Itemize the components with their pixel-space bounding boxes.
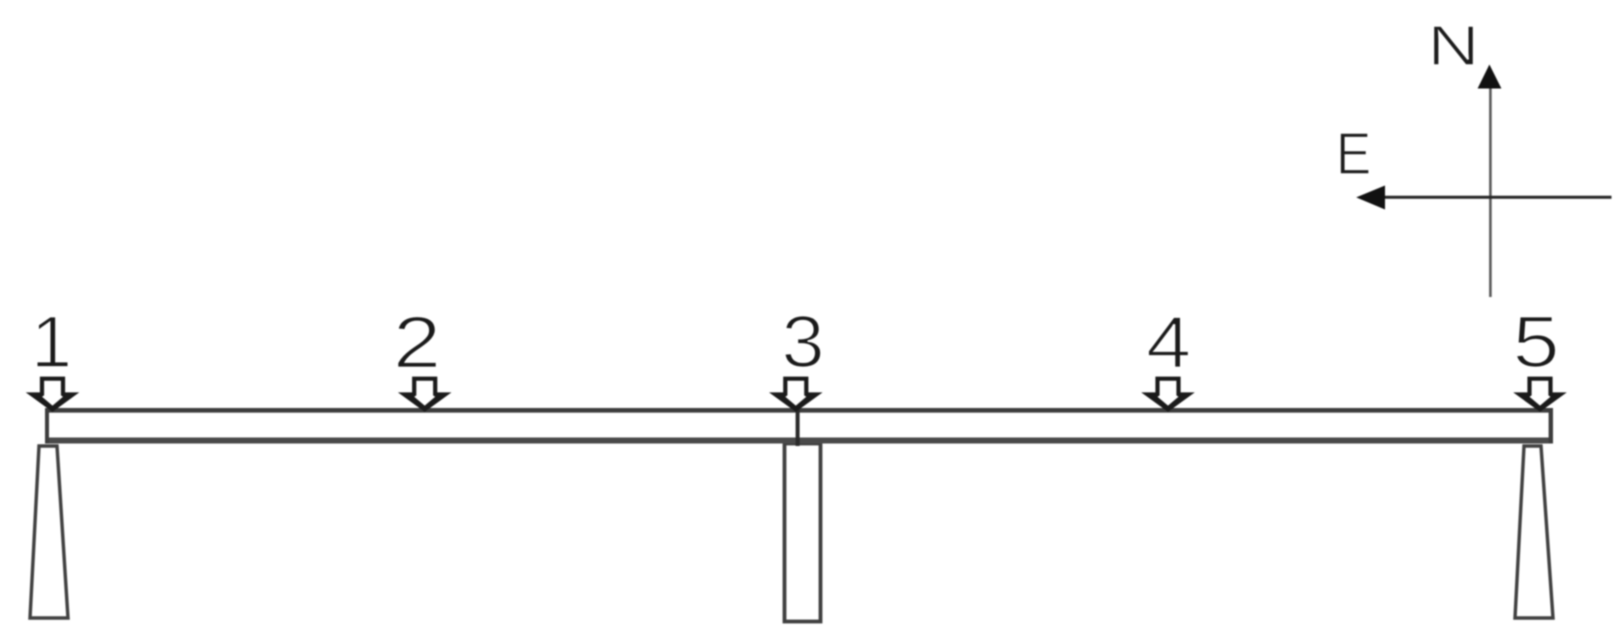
svg-text:1: 1 <box>31 301 72 383</box>
svg-text:E: E <box>1336 120 1371 186</box>
svg-text:4: 4 <box>1146 302 1191 383</box>
svg-text:3: 3 <box>781 301 824 383</box>
svg-text:2: 2 <box>393 302 441 384</box>
svg-text:5: 5 <box>1512 301 1559 383</box>
svg-text:N: N <box>1427 14 1479 78</box>
